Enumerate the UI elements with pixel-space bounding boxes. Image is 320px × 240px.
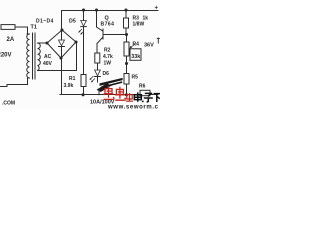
wire secondary top to bridge AC left <box>38 42 48 44</box>
diode D6 <box>95 70 101 82</box>
svg-text:3.9k: 3.9k <box>64 83 74 89</box>
wire fuse to transformer primary top <box>15 27 28 34</box>
svg-text:1/8W: 1/8W <box>133 22 145 28</box>
top rail wire <box>62 10 159 12</box>
svg-text:R5: R5 <box>132 75 139 81</box>
svg-text:T1: T1 <box>31 25 37 31</box>
node base R3 R4 junction <box>125 33 128 36</box>
wire SCR cathode to bottom rail <box>98 90 100 95</box>
svg-text:www.seworm.c: www.seworm.c <box>107 104 159 110</box>
bottom rail wire <box>60 94 158 96</box>
diode D5 <box>81 10 87 27</box>
svg-text:220V: 220V <box>0 53 12 59</box>
node R4 bottom junction <box>125 62 128 65</box>
potentiometer R4 <box>124 35 129 57</box>
bridge internal diode <box>59 30 65 58</box>
resistor R3 1k 1/8W <box>124 10 129 35</box>
svg-text:33k: 33k <box>131 54 140 60</box>
node Q emitter on rail <box>95 8 98 11</box>
fuse F1 2A <box>1 25 15 30</box>
R4 value box 33k <box>130 49 141 61</box>
D6 LED arrows <box>90 76 95 82</box>
node R3 top on rail <box>124 8 127 11</box>
output terminal mark 36V <box>157 38 160 44</box>
svg-text:4.7k: 4.7k <box>103 54 113 60</box>
svg-text:36V: 36V <box>144 43 154 49</box>
svg-text:D5: D5 <box>69 19 76 25</box>
resistor R1 3.9k <box>81 75 86 87</box>
node bridge top <box>60 28 63 31</box>
bridge rectifier D1~D4 diamond <box>47 30 76 58</box>
watermark red char 3 partial <box>126 93 133 102</box>
svg-text:R2: R2 <box>104 48 111 54</box>
svg-text:R6: R6 <box>139 84 146 90</box>
wire R1 to bottom rail <box>83 87 85 95</box>
svg-text:D1~D4: D1~D4 <box>36 19 54 25</box>
D5 LED arrows <box>78 29 83 34</box>
wire bridge minus down to bottom rail <box>61 58 63 95</box>
svg-text:AC: AC <box>44 54 52 60</box>
svg-text:1W: 1W <box>104 61 112 67</box>
node bridge bottom <box>59 56 62 59</box>
svg-text:.COM: .COM <box>2 101 15 107</box>
watermark black char xia <box>154 94 161 102</box>
watermark red char 2 <box>115 87 126 100</box>
svg-text:B764: B764 <box>101 22 115 28</box>
svg-text:R1: R1 <box>69 76 76 82</box>
wire Q base to R3/R4 junction <box>103 34 127 36</box>
wire bridge plus to top rail <box>61 11 63 31</box>
wire 220V bottom input <box>0 78 30 87</box>
R4 wiper arrow <box>129 45 134 49</box>
watermark black char zi <box>144 93 153 102</box>
svg-text:+: + <box>155 6 159 12</box>
resistor R6 <box>140 90 150 95</box>
svg-text:R4: R4 <box>133 42 140 48</box>
node R5 bottom <box>125 93 128 96</box>
node bridge right <box>74 40 77 43</box>
transformer T1 core <box>33 33 36 79</box>
wire R2 to D6 <box>97 63 99 70</box>
transformer T1 primary winding <box>27 34 30 78</box>
transformer T1 secondary winding <box>38 43 41 71</box>
SCR 10A/100V <box>97 78 123 92</box>
resistor R2 4.7k 1W <box>95 53 100 63</box>
wire D5 to R1 <box>83 27 85 75</box>
node R1 bottom <box>81 93 84 96</box>
wire secondary bottom to bridge AC right <box>38 42 77 71</box>
transistor Q B764 <box>97 10 104 53</box>
wire R5 to bottom rail <box>126 84 128 95</box>
node bridge left <box>45 41 48 44</box>
resistor R5 <box>124 74 129 85</box>
node D5 top on rail <box>82 8 85 11</box>
wire R4 to R5 <box>126 56 128 74</box>
svg-text:40V: 40V <box>43 61 53 67</box>
watermark black char dian <box>134 92 143 101</box>
watermark red char 1 <box>104 86 115 99</box>
svg-text:2A: 2A <box>7 37 15 43</box>
svg-text:D6: D6 <box>103 71 110 77</box>
